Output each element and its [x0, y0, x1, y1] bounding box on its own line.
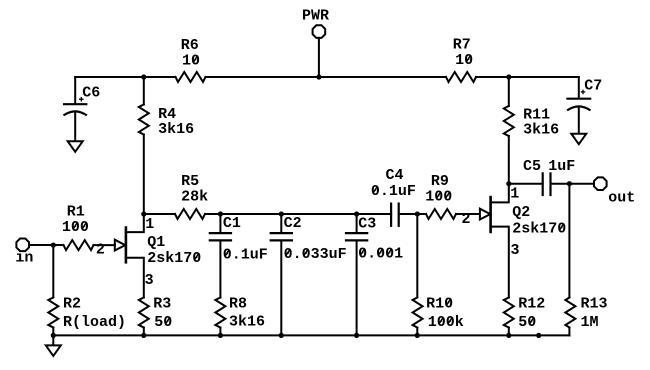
- svg-text:R12: R12: [518, 296, 545, 313]
- svg-text:1uF: 1uF: [548, 158, 575, 175]
- node bottom C2: [279, 333, 284, 338]
- wire top rail mid segment: [206, 76, 447, 78]
- capacitor C4: [371, 167, 416, 227]
- node bottom R2: [51, 333, 56, 338]
- resistor R6: [176, 37, 206, 82]
- svg-text:28k: 28k: [181, 188, 208, 205]
- svg-text:100: 100: [62, 219, 89, 236]
- svg-text:50: 50: [518, 314, 536, 331]
- capacitor C5: [523, 158, 575, 196]
- node bottom R10: [415, 333, 420, 338]
- svg-text:3: 3: [511, 242, 520, 259]
- wire in to R1: [29, 244, 64, 246]
- wire bottom rail: [53, 334, 569, 336]
- svg-text:C1: C1: [223, 215, 241, 232]
- wire C5 to out: [551, 183, 595, 185]
- terminal in: [15, 239, 33, 267]
- wire top power rail: [75, 76, 175, 78]
- resistor R9: [425, 173, 456, 219]
- wire top rail right segment: [476, 76, 579, 78]
- svg-text:Q1: Q1: [147, 234, 165, 251]
- capacitor C1: [209, 214, 268, 298]
- svg-text:1M: 1M: [581, 314, 599, 331]
- node bottom R12: [506, 333, 511, 338]
- svg-text:C6: C6: [82, 84, 100, 101]
- svg-text:R2: R2: [63, 296, 81, 313]
- svg-text:R8: R8: [229, 296, 247, 313]
- svg-text:10: 10: [182, 53, 200, 70]
- resistor R10: [413, 214, 464, 335]
- transistor Q1: [96, 214, 201, 298]
- svg-text:0.033uF: 0.033uF: [284, 246, 347, 263]
- resistor R3: [139, 296, 173, 336]
- node top rail / R11 junction: [506, 74, 511, 79]
- slashed zero marks: [73, 56, 563, 324]
- svg-text:0.1uF: 0.1uF: [371, 183, 416, 200]
- svg-text:3k16: 3k16: [229, 314, 265, 331]
- transistor Q2: [462, 184, 567, 298]
- svg-text:3k16: 3k16: [523, 122, 559, 139]
- node Q2 drain / C5 junction: [506, 181, 511, 186]
- svg-text:R3: R3: [153, 296, 171, 313]
- svg-text:PWR: PWR: [302, 8, 329, 25]
- node mid rail / C2 junction: [279, 211, 284, 216]
- node R10 junction: [415, 211, 420, 216]
- svg-text:1: 1: [145, 216, 154, 233]
- svg-text:0.001: 0.001: [358, 246, 403, 263]
- node top rail / R4 junction: [141, 74, 146, 79]
- svg-text:C4: C4: [386, 167, 404, 184]
- node bottom stray: [536, 333, 541, 338]
- resistor R2: [48, 245, 126, 335]
- svg-text:2: 2: [96, 241, 105, 258]
- capacitor C3: [345, 214, 403, 335]
- svg-text:3: 3: [145, 272, 154, 289]
- resistor R5: [175, 173, 208, 219]
- wire PWR stub: [318, 38, 320, 77]
- wire R9 to Q2 gate: [456, 213, 480, 215]
- wire R1 to Q1 gate: [94, 244, 115, 246]
- svg-text:R9: R9: [431, 173, 449, 190]
- svg-text:3k16: 3k16: [158, 121, 194, 138]
- svg-text:R13: R13: [581, 296, 608, 313]
- svg-text:2sk170: 2sk170: [147, 250, 201, 267]
- ground main: [46, 345, 61, 356]
- resistor R13: [565, 184, 607, 336]
- ground below C7: [571, 134, 586, 145]
- capacitor C2: [270, 214, 347, 335]
- svg-text:0.1uF: 0.1uF: [223, 246, 268, 263]
- svg-text:C3: C3: [358, 216, 376, 233]
- wire C4 to R9: [399, 213, 426, 215]
- capacitor C6: [63, 77, 100, 141]
- svg-text:R10: R10: [426, 296, 453, 313]
- resistor R8: [215, 296, 265, 336]
- node out / R13 junction: [567, 181, 572, 186]
- terminal out: [594, 177, 635, 206]
- svg-text:C2: C2: [284, 215, 302, 232]
- resistor R1: [62, 204, 94, 251]
- svg-text:R7: R7: [453, 36, 471, 53]
- svg-text:R(load): R(load): [63, 314, 126, 331]
- wire mid rail left segment: [144, 213, 175, 215]
- svg-text:R6: R6: [181, 37, 199, 54]
- wire ground stub: [52, 335, 54, 345]
- node mid rail / C1 junction: [218, 211, 223, 216]
- svg-text:C7: C7: [584, 77, 602, 94]
- resistor R4: [139, 77, 194, 214]
- node bottom C3: [354, 333, 359, 338]
- node mid rail / Q1 drain junction: [141, 211, 146, 216]
- svg-text:100k: 100k: [428, 314, 464, 331]
- node PWR junction: [316, 74, 321, 79]
- svg-text:50: 50: [154, 314, 172, 331]
- svg-text:C5: C5: [523, 158, 541, 175]
- svg-text:Q2: Q2: [512, 204, 530, 221]
- svg-text:R1: R1: [67, 204, 85, 221]
- resistor R12: [504, 296, 546, 336]
- capacitor C7: [566, 77, 602, 134]
- resistor R7: [446, 36, 476, 82]
- wire Q2 drain to C5: [509, 183, 543, 185]
- svg-text:2sk170: 2sk170: [512, 220, 566, 237]
- resistor R11: [504, 77, 559, 184]
- svg-text:2: 2: [462, 211, 471, 228]
- svg-text:10: 10: [455, 52, 473, 69]
- node in/R2 junction: [51, 243, 56, 248]
- node mid rail / C3 junction: [354, 211, 359, 216]
- svg-text:out: out: [608, 189, 635, 206]
- node bottom R3: [141, 333, 146, 338]
- terminal PWR: [302, 8, 329, 38]
- ground below C6: [68, 141, 83, 152]
- wire mid rail to C4: [205, 213, 391, 215]
- svg-text:in: in: [15, 250, 33, 267]
- svg-text:100: 100: [425, 189, 452, 206]
- node bottom R8: [218, 333, 223, 338]
- svg-text:1: 1: [510, 185, 519, 202]
